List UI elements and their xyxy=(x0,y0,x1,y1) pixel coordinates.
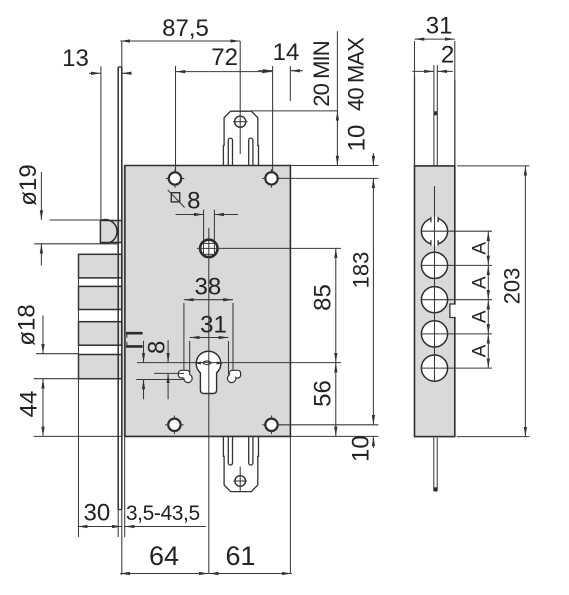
svg-text:10: 10 xyxy=(348,435,375,462)
cylinder axis arrows xyxy=(194,362,201,365)
cylinder cam lens xyxy=(203,361,212,365)
dim 14 lines xyxy=(258,70,273,72)
side circle 2 xyxy=(421,252,447,278)
dim 31 xyxy=(190,337,229,339)
side circle 4 xyxy=(421,321,447,347)
svg-text:31: 31 xyxy=(426,13,453,40)
dim 8 offset lines xyxy=(154,372,184,374)
svg-text:A: A xyxy=(469,242,490,255)
corner hole bottom-right xyxy=(262,416,281,435)
svg-text:3,5-43,5: 3,5-43,5 xyxy=(126,502,200,525)
bottom fixing tab xyxy=(223,436,258,491)
ext line latch edge xyxy=(100,66,102,220)
svg-text:56: 56 xyxy=(310,380,337,407)
dim A chain xyxy=(487,231,489,265)
top tab slot right xyxy=(249,138,253,165)
side circle centerline vertical xyxy=(434,186,436,381)
side circle 5 xyxy=(421,355,447,381)
euro cylinder profile xyxy=(196,351,221,393)
ext lines square flats xyxy=(203,210,205,241)
top tab slot left xyxy=(228,138,232,165)
ext spindle centerline down xyxy=(208,410,210,574)
corner hole bottom-left xyxy=(165,416,184,435)
deadbolt 2 xyxy=(79,286,122,309)
svg-text:A: A xyxy=(469,344,490,357)
bottom tab slot left xyxy=(228,436,232,465)
side faceplate edges xyxy=(414,77,416,166)
ext body left edge down xyxy=(124,436,126,537)
ext line body right top xyxy=(289,66,291,101)
dim 203 xyxy=(524,166,526,437)
dim 10 top xyxy=(372,153,374,166)
latch bolt ø19 (D-shape) xyxy=(100,221,121,243)
svg-text:64: 64 xyxy=(149,541,179,571)
ext line tab centerline xyxy=(239,41,241,154)
spindle follower ring xyxy=(200,240,217,257)
deadbolt 1 xyxy=(79,254,122,278)
ext line right hole xyxy=(272,66,274,172)
svg-text:ø18: ø18 xyxy=(14,304,41,345)
ext top hole row right xyxy=(279,177,378,179)
dim 10 bottom xyxy=(372,436,374,448)
cylinder ear left xyxy=(178,370,189,378)
dim 72 line xyxy=(176,71,272,73)
svg-text:A: A xyxy=(469,310,490,323)
svg-text:40 MAX: 40 MAX xyxy=(343,37,368,111)
svg-text:ø19: ø19 xyxy=(15,164,42,205)
side circle 3 xyxy=(421,287,447,313)
svg-text:8: 8 xyxy=(144,341,171,354)
lock body case (gray) xyxy=(121,166,290,437)
ext body top right xyxy=(290,165,378,167)
top tab hole xyxy=(235,116,246,127)
dim 8 line xyxy=(176,214,204,216)
svg-text:10: 10 xyxy=(344,125,371,152)
svg-text:61: 61 xyxy=(225,541,255,571)
dim square 8 symbol xyxy=(171,193,179,202)
ext line left hole xyxy=(175,66,177,172)
faceplate edge-on (2mm) top xyxy=(433,65,435,166)
dim 20MIN/40MAX line xyxy=(336,31,338,111)
side body (gray) xyxy=(415,166,455,437)
dim 31 (side) xyxy=(415,38,455,40)
svg-text:183: 183 xyxy=(349,252,374,289)
ext body bottom right xyxy=(290,435,378,437)
svg-text:2: 2 xyxy=(441,42,454,69)
side circle center lines xyxy=(421,230,492,232)
svg-text:85: 85 xyxy=(310,284,337,311)
cylinder ear right xyxy=(229,370,240,378)
svg-text:38: 38 xyxy=(195,274,222,301)
svg-text:A: A xyxy=(469,276,490,289)
deadbolt 4 (ø18 round bolt) xyxy=(79,355,122,379)
faceplate edge-on bottom rod xyxy=(433,438,435,491)
spindle centerlines xyxy=(197,247,341,249)
faceplate (front strip) xyxy=(118,67,122,510)
dim 13 line xyxy=(89,72,101,74)
svg-text:31: 31 xyxy=(200,312,227,339)
svg-text:72: 72 xyxy=(211,44,238,71)
dim 87,5 line xyxy=(120,40,240,42)
dim 183 xyxy=(372,178,374,424)
dim 85/56 line xyxy=(335,248,337,362)
cylinder axis line xyxy=(137,362,341,364)
ext line tab top xyxy=(251,110,338,112)
svg-text:87,5: 87,5 xyxy=(162,15,209,42)
svg-text:30: 30 xyxy=(84,500,111,527)
faceplate edge lines xyxy=(117,67,119,510)
ext bolt left edge down xyxy=(78,254,80,537)
svg-text:8: 8 xyxy=(187,188,200,215)
dim 2 (side) xyxy=(412,70,434,72)
corner hole top-left xyxy=(166,169,185,188)
dim 64/61 xyxy=(120,573,209,575)
dim 38 xyxy=(184,299,233,301)
ext body right edge down xyxy=(289,436,291,573)
side hub circle 1 xyxy=(421,218,447,244)
svg-text:14: 14 xyxy=(273,39,300,66)
dim 30 xyxy=(78,526,122,528)
strike plate thick bars xyxy=(126,332,143,335)
svg-text:20 MIN: 20 MIN xyxy=(309,41,334,107)
svg-text:203: 203 xyxy=(500,268,525,305)
dim 3,5-43,5 xyxy=(125,526,206,528)
svg-text:44: 44 xyxy=(16,391,43,418)
spindle square 8mm xyxy=(204,243,215,254)
corner hole top-right xyxy=(262,169,281,188)
top fixing tab xyxy=(223,111,258,165)
deadbolt 3 xyxy=(79,322,122,346)
dim 44 xyxy=(42,379,44,437)
bottom tab hole xyxy=(235,476,246,487)
svg-text:13: 13 xyxy=(62,45,89,72)
bottom tab slot right xyxy=(249,436,253,465)
right edge notch xyxy=(450,304,456,318)
ext bottom hole row right xyxy=(279,424,378,426)
